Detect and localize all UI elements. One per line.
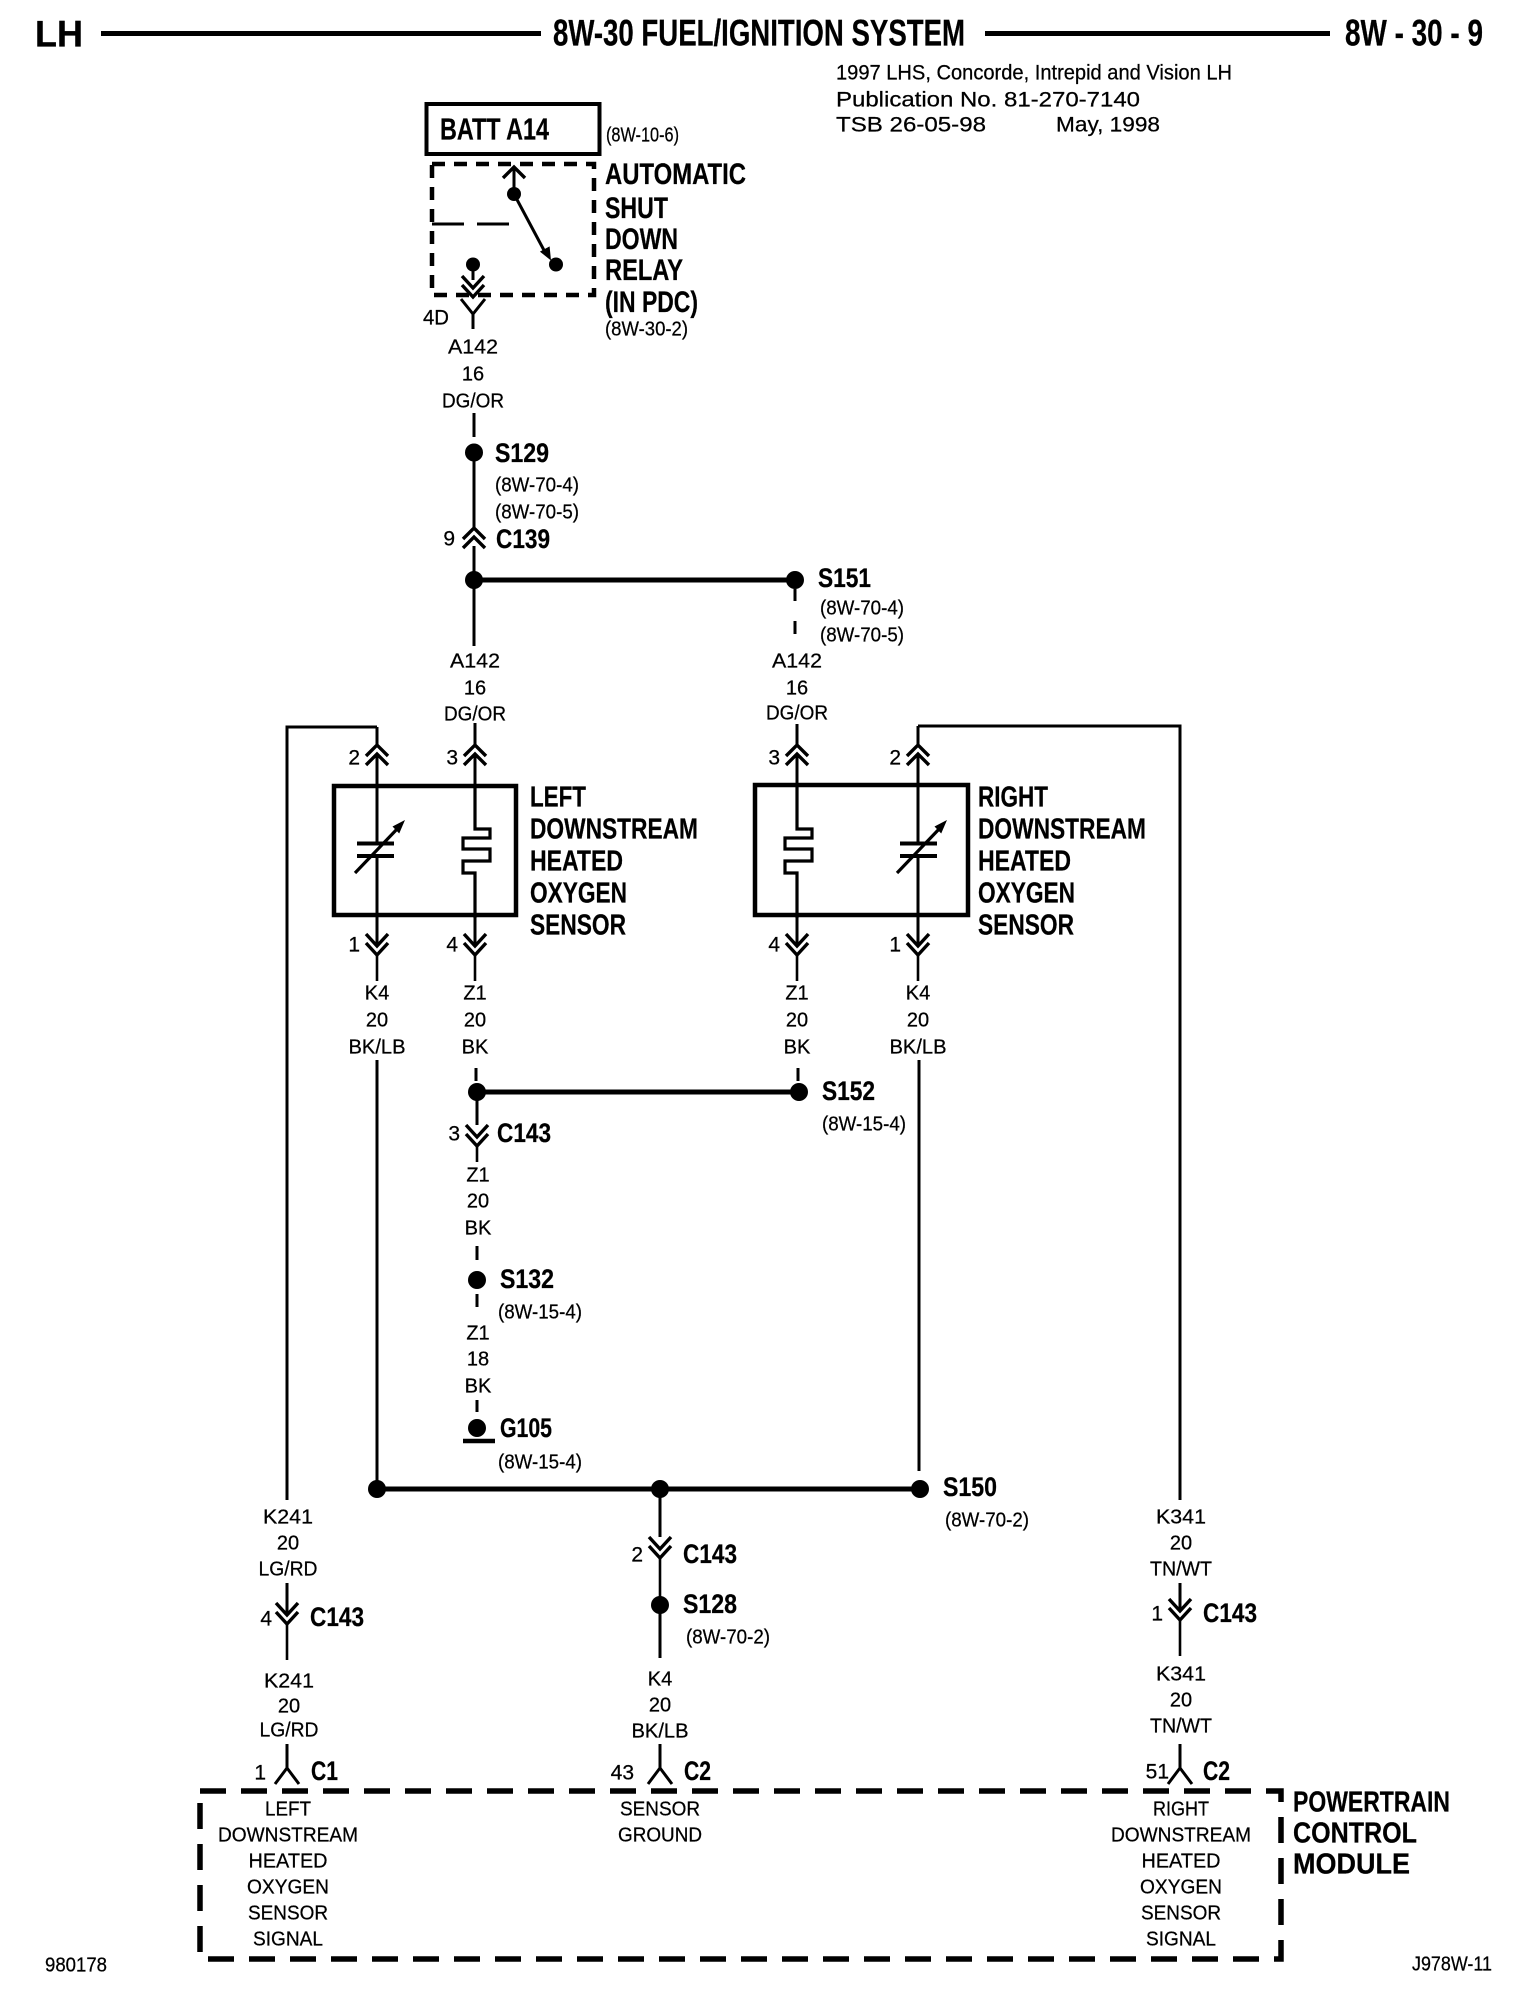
header rule right	[985, 31, 1330, 36]
component left downstream heated oxygen sensor box	[334, 786, 516, 915]
wire jog left sensor pin 2	[286, 726, 378, 729]
wire dash	[476, 1294, 479, 1307]
svg-text:16: 16	[464, 677, 486, 699]
svg-text:K4: K4	[648, 1668, 672, 1690]
svg-text:POWERTRAIN: POWERTRAIN	[1293, 1787, 1450, 1819]
svg-text:9: 9	[443, 528, 455, 551]
svg-text:Z1: Z1	[466, 1322, 489, 1344]
node bus middle junction	[651, 1480, 669, 1498]
svg-text:LEFT: LEFT	[265, 1798, 311, 1820]
svg-text:CONTROL: CONTROL	[1293, 1818, 1417, 1850]
svg-text:8W-30 FUEL/IGNITION SYSTEM: 8W-30 FUEL/IGNITION SYSTEM	[553, 13, 965, 54]
wire	[473, 461, 476, 527]
right sensor sensing element wire	[917, 787, 920, 842]
svg-text:(8W-15-4): (8W-15-4)	[498, 1301, 582, 1323]
svg-text:TN/WT: TN/WT	[1150, 1558, 1212, 1580]
svg-text:DG/OR: DG/OR	[444, 703, 506, 725]
svg-text:LH: LH	[35, 14, 83, 55]
svg-text:20: 20	[464, 1009, 486, 1031]
svg-text:G105: G105	[500, 1413, 552, 1443]
svg-text:SENSOR: SENSOR	[978, 910, 1074, 942]
pin 1 of left sensor	[376, 918, 379, 944]
svg-text:1997 LHS, Concorde, Intrepid a: 1997 LHS, Concorde, Intrepid and Vision …	[836, 62, 1232, 85]
svg-text:2: 2	[889, 747, 901, 770]
component powertrain control module dashed box	[200, 1791, 1281, 1959]
right sensor variable arrow	[897, 827, 941, 873]
node junction left Z1	[468, 1083, 486, 1101]
relay automatic shut down relay dashed box	[432, 164, 594, 295]
svg-text:2: 2	[631, 1544, 643, 1567]
svg-text:8W - 30 - 9: 8W - 30 - 9	[1345, 13, 1483, 54]
svg-text:RELAY: RELAY	[605, 254, 683, 287]
svg-text:BK/LB: BK/LB	[632, 1720, 689, 1742]
svg-text:S132: S132	[500, 1264, 554, 1294]
wire dash	[476, 1400, 479, 1412]
wire dash	[476, 1246, 479, 1260]
svg-text:OXYGEN: OXYGEN	[247, 1876, 329, 1898]
left sensor heater element	[463, 788, 490, 918]
svg-text:LG/RD: LG/RD	[259, 1558, 318, 1580]
svg-text:C2: C2	[684, 1756, 711, 1786]
ground G105	[468, 1419, 486, 1437]
svg-text:K4: K4	[365, 982, 389, 1004]
wire	[473, 546, 476, 580]
svg-text:16: 16	[462, 363, 484, 385]
wire left K4 down	[376, 1060, 379, 1489]
right sensor heater element	[785, 787, 812, 918]
svg-text:DOWN: DOWN	[605, 223, 678, 256]
svg-text:20: 20	[649, 1694, 671, 1716]
pin 4 of left sensor	[474, 918, 477, 944]
svg-text:TSB 26-05-98: TSB 26-05-98	[836, 114, 986, 137]
svg-text:20: 20	[786, 1009, 808, 1031]
left sensor variable arrow	[355, 827, 399, 873]
svg-text:BK: BK	[465, 1217, 492, 1239]
svg-text:C143: C143	[683, 1539, 737, 1569]
svg-text:TN/WT: TN/WT	[1150, 1715, 1212, 1737]
svg-text:BK: BK	[465, 1375, 492, 1397]
svg-text:3: 3	[768, 747, 780, 770]
splice S129	[465, 444, 483, 462]
svg-text:RIGHT: RIGHT	[1153, 1798, 1209, 1820]
svg-text:DOWNSTREAM: DOWNSTREAM	[978, 814, 1146, 846]
relay common contact arrow to BATT	[503, 167, 525, 178]
svg-text:HEATED: HEATED	[530, 846, 623, 878]
svg-text:SENSOR: SENSOR	[248, 1902, 328, 1924]
svg-text:20: 20	[907, 1009, 929, 1031]
wire jog right sensor pin 2	[918, 725, 1182, 728]
splice S150	[911, 1480, 929, 1498]
svg-text:1: 1	[1151, 1603, 1163, 1626]
relay stationary contact dot	[549, 258, 563, 272]
svg-text:DOWNSTREAM: DOWNSTREAM	[218, 1824, 358, 1846]
svg-text:C143: C143	[1203, 1598, 1257, 1628]
node junction below C139	[465, 571, 483, 589]
svg-text:4: 4	[260, 1608, 272, 1631]
svg-text:Publication No. 81-270-7140: Publication No. 81-270-7140	[836, 89, 1140, 112]
svg-text:S129: S129	[495, 438, 549, 468]
svg-text:DOWNSTREAM: DOWNSTREAM	[530, 814, 698, 846]
svg-text:BK: BK	[784, 1036, 811, 1058]
pin 4 of right sensor	[796, 918, 799, 944]
wire to S151	[474, 578, 795, 583]
svg-text:BK/LB: BK/LB	[890, 1036, 947, 1058]
relay internal divider dashes	[432, 223, 464, 226]
svg-text:(8W-70-5): (8W-70-5)	[820, 624, 904, 646]
connector C143 pin 1	[1179, 1583, 1182, 1609]
svg-text:K241: K241	[264, 1670, 314, 1692]
connector C143 pin 4	[286, 1583, 289, 1613]
svg-text:S151: S151	[818, 563, 871, 593]
svg-text:S152: S152	[822, 1076, 875, 1106]
svg-text:20: 20	[1170, 1532, 1192, 1554]
svg-text:(8W-70-2): (8W-70-2)	[945, 1509, 1029, 1531]
wire right A142 branch dashes	[794, 589, 797, 601]
svg-text:BK/LB: BK/LB	[349, 1036, 406, 1058]
svg-text:(8W-15-4): (8W-15-4)	[498, 1451, 582, 1473]
svg-text:DG/OR: DG/OR	[766, 702, 828, 724]
svg-text:20: 20	[366, 1009, 388, 1031]
svg-text:3: 3	[448, 1123, 460, 1146]
splice S132	[468, 1271, 486, 1289]
svg-text:20: 20	[278, 1695, 300, 1717]
relay movable arm	[514, 194, 546, 254]
svg-text:J978W-11: J978W-11	[1412, 1953, 1492, 1975]
svg-text:SENSOR: SENSOR	[1141, 1902, 1221, 1924]
svg-text:(8W-70-4): (8W-70-4)	[820, 597, 904, 619]
wire left A142 branch	[473, 588, 476, 646]
svg-text:1: 1	[254, 1762, 266, 1785]
splice S151	[786, 571, 804, 589]
wire	[476, 1100, 479, 1125]
svg-text:A142: A142	[448, 336, 498, 358]
wire dash left Z1	[475, 1068, 478, 1081]
svg-text:OXYGEN: OXYGEN	[1140, 1876, 1222, 1898]
svg-text:18: 18	[467, 1348, 489, 1370]
svg-text:K341: K341	[1156, 1663, 1206, 1685]
svg-text:HEATED: HEATED	[1142, 1850, 1221, 1872]
wire to S152	[477, 1090, 799, 1095]
left sensor sensing element wire	[376, 788, 379, 842]
wire	[659, 1497, 662, 1537]
node BATT A14 fuse box	[427, 104, 600, 154]
wire right K4 down	[918, 1060, 921, 1471]
svg-text:C2: C2	[1203, 1756, 1230, 1786]
splice S128	[651, 1596, 669, 1614]
svg-text:4D: 4D	[423, 307, 449, 330]
svg-text:DG/OR: DG/OR	[442, 390, 504, 412]
svg-text:K4: K4	[906, 982, 930, 1004]
pin 1 of right sensor	[917, 918, 920, 944]
svg-text:C143: C143	[497, 1118, 551, 1148]
svg-text:Z1: Z1	[463, 982, 486, 1004]
svg-text:1: 1	[348, 934, 360, 957]
svg-text:S128: S128	[683, 1589, 737, 1619]
svg-text:AUTOMATIC: AUTOMATIC	[605, 158, 746, 191]
svg-text:(8W-10-6): (8W-10-6)	[606, 124, 679, 146]
svg-text:HEATED: HEATED	[249, 1850, 328, 1872]
svg-text:51: 51	[1146, 1761, 1169, 1784]
svg-text:BATT A14: BATT A14	[440, 111, 550, 146]
svg-text:SENSOR: SENSOR	[530, 910, 626, 942]
svg-text:20: 20	[277, 1532, 299, 1554]
splice S152	[790, 1083, 808, 1101]
svg-text:SIGNAL: SIGNAL	[253, 1928, 323, 1950]
svg-text:(8W-70-2): (8W-70-2)	[686, 1626, 770, 1648]
svg-text:C139: C139	[496, 524, 550, 554]
header rule left	[101, 31, 541, 36]
svg-text:20: 20	[467, 1190, 489, 1212]
svg-text:1: 1	[889, 934, 901, 957]
component right downstream heated oxygen sensor box	[755, 785, 968, 915]
svg-text:A142: A142	[450, 650, 500, 672]
relay output lead	[472, 271, 475, 280]
svg-text:(8W-30-2): (8W-30-2)	[605, 318, 688, 340]
left sensor element plates	[357, 842, 394, 846]
svg-text:4: 4	[446, 934, 458, 957]
svg-text:4: 4	[768, 934, 780, 957]
svg-text:(8W-70-5): (8W-70-5)	[495, 501, 579, 523]
relay output contact dot	[466, 258, 480, 272]
relay pivot contact dot	[507, 187, 521, 201]
svg-text:GROUND: GROUND	[618, 1824, 702, 1846]
svg-text:A142: A142	[772, 650, 822, 672]
svg-text:S150: S150	[943, 1472, 997, 1502]
svg-text:DOWNSTREAM: DOWNSTREAM	[1111, 1824, 1251, 1846]
svg-text:SHUT: SHUT	[605, 192, 668, 225]
svg-text:RIGHT: RIGHT	[978, 782, 1048, 814]
svg-text:43: 43	[611, 1762, 634, 1785]
svg-text:(8W-15-4): (8W-15-4)	[822, 1113, 906, 1135]
svg-text:20: 20	[1170, 1689, 1192, 1711]
svg-text:SENSOR: SENSOR	[620, 1798, 700, 1820]
svg-text:OXYGEN: OXYGEN	[530, 878, 627, 910]
svg-text:16: 16	[786, 677, 808, 699]
svg-text:C1: C1	[311, 1756, 338, 1786]
svg-text:BK: BK	[462, 1036, 489, 1058]
svg-text:LG/RD: LG/RD	[260, 1719, 319, 1741]
svg-text:2: 2	[348, 747, 360, 770]
svg-text:LEFT: LEFT	[530, 782, 586, 814]
svg-text:MODULE: MODULE	[1293, 1849, 1410, 1881]
svg-text:C143: C143	[310, 1602, 364, 1632]
svg-text:K341: K341	[1156, 1506, 1206, 1528]
wire dash right Z1	[797, 1068, 800, 1081]
svg-text:SIGNAL: SIGNAL	[1146, 1928, 1216, 1950]
wire	[473, 413, 476, 437]
svg-text:May, 1998: May, 1998	[1056, 114, 1160, 137]
svg-text:(8W-70-4): (8W-70-4)	[495, 474, 579, 496]
right sensor element plates	[900, 842, 937, 846]
node bus left junction	[368, 1480, 386, 1498]
svg-text:Z1: Z1	[466, 1164, 489, 1186]
svg-text:OXYGEN: OXYGEN	[978, 878, 1075, 910]
svg-text:Z1: Z1	[785, 982, 808, 1004]
svg-text:3: 3	[446, 747, 458, 770]
wire ground bus	[377, 1487, 920, 1492]
svg-text:(IN PDC): (IN PDC)	[605, 286, 698, 319]
svg-text:HEATED: HEATED	[978, 846, 1071, 878]
svg-text:980178: 980178	[45, 1954, 107, 1976]
svg-text:K241: K241	[263, 1506, 313, 1528]
